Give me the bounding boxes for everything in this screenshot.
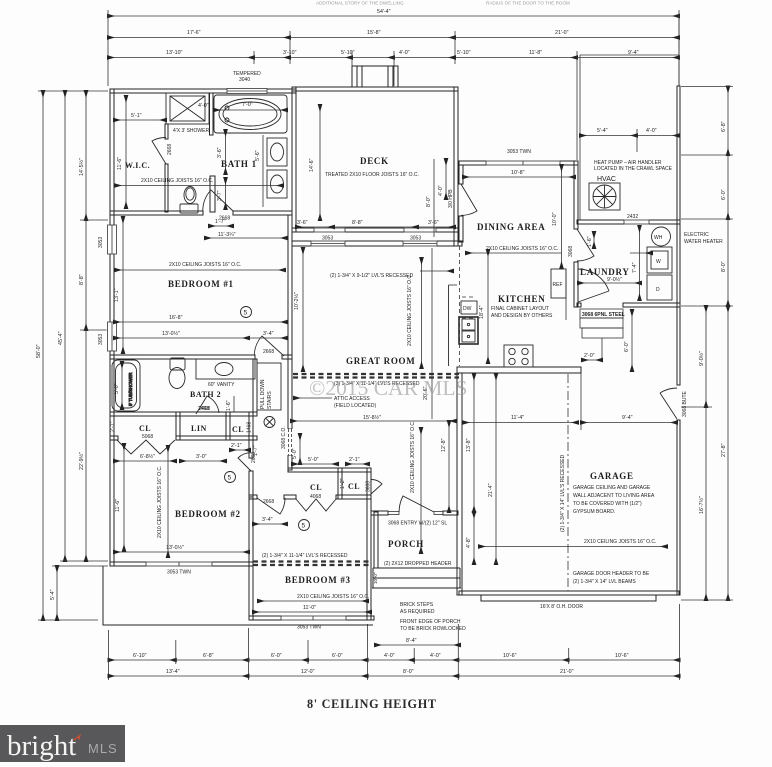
kitchen/dining LVL dashed beam	[459, 246, 461, 366]
svg-text:8'-8": 8'-8"	[79, 274, 85, 285]
lower-left yard outline	[103, 566, 373, 625]
svg-text:(2) 1-3/4" X 9-1/2" LVL'S RECE: (2) 1-3/4" X 9-1/2" LVL'S RECESSED	[330, 273, 413, 279]
dim row 13'-10" / 3'-10" / 5'-10" / 4'-0" / 5'-10" / 11'-8" / 9'-4"	[108, 50, 679, 160]
svg-text:GYPSUM BOARD.: GYPSUM BOARD.	[573, 509, 615, 515]
svg-text:2'-1": 2'-1"	[110, 421, 116, 432]
bedroom3 3'-4 dim	[253, 517, 287, 524]
svg-text:54'-4": 54'-4"	[377, 9, 391, 15]
svg-text:DW: DW	[463, 306, 472, 312]
right dim 27'-8"	[681, 306, 733, 600]
svg-text:GARAGE DOOR HEADER TO BE: GARAGE DOOR HEADER TO BE	[573, 571, 650, 577]
svg-text:2X10 CEILING JOISTS 16" O.C.: 2X10 CEILING JOISTS 16" O.C.	[407, 274, 413, 346]
svg-text:BRICK STEPS: BRICK STEPS	[400, 602, 434, 608]
svg-text:8'-0": 8'-0"	[426, 196, 432, 207]
svg-text:1'-7": 1'-7"	[253, 445, 259, 456]
svg-text:8'-4": 8'-4"	[406, 638, 417, 644]
svg-text:6'-8": 6'-8"	[721, 121, 727, 132]
dryer	[647, 275, 672, 300]
svg-text:6'-0": 6'-0"	[271, 653, 282, 659]
vanity bath2 60"	[196, 359, 255, 379]
WIC dims	[114, 96, 166, 208]
bright MLS logo	[0, 725, 125, 762]
svg-text:10'-8": 10'-8"	[511, 170, 525, 176]
svg-text:10'-6": 10'-6"	[615, 653, 629, 659]
svg-text:GARAGE CEILING AND GARAGE: GARAGE CEILING AND GARAGE	[573, 485, 651, 491]
svg-text:13'-8": 13'-8"	[466, 438, 472, 452]
svg-text:(2) 2X12 DROPPED HEADER: (2) 2X12 DROPPED HEADER	[384, 561, 452, 567]
svg-text:10'-0": 10'-0"	[552, 212, 558, 226]
svg-text:5'-0": 5'-0"	[308, 457, 319, 463]
range/stove	[504, 345, 533, 367]
bifold: CL 4068	[296, 499, 336, 511]
door: dining 3/0 HPB	[448, 184, 477, 215]
washer	[630, 247, 672, 273]
wall: porch left	[374, 512, 378, 568]
svg-text:GREAT ROOM: GREAT ROOM	[346, 356, 415, 366]
garage joists	[479, 539, 667, 547]
svg-text:CL: CL	[348, 482, 360, 491]
svg-text:21'-4": 21'-4"	[488, 483, 494, 497]
svg-text:5'-0": 5'-0"	[292, 448, 298, 459]
wall: main north wall	[292, 241, 462, 246]
wall: foyer east / garage west / porch right	[457, 373, 462, 595]
svg-text:3053 TWN: 3053 TWN	[167, 570, 191, 576]
svg-text:21'-0": 21'-0"	[555, 30, 569, 36]
WIC joists note	[115, 178, 283, 186]
left dim 45'-4"	[58, 91, 108, 561]
svg-text:©2015 CAR MLS: ©2015 CAR MLS	[309, 376, 468, 400]
svg-text:5'-10": 5'-10"	[341, 50, 355, 56]
tub bath2	[112, 360, 140, 411]
svg-text:12'-8": 12'-8"	[441, 438, 447, 452]
svg-text:3040: 3040	[239, 77, 250, 83]
svg-text:18'-4": 18'-4"	[479, 305, 485, 319]
svg-text:15'-8": 15'-8"	[367, 30, 381, 36]
svg-text:2432: 2432	[627, 214, 638, 220]
svg-text:5'-6": 5'-6"	[255, 150, 261, 161]
svg-text:22'-9½": 22'-9½"	[78, 452, 85, 470]
svg-text:3'-10": 3'-10"	[283, 50, 297, 56]
wall: bath2 bottom / closets top	[110, 412, 257, 416]
svg-text:2'-1": 2'-1"	[349, 457, 360, 463]
wall: bath1 toilet-room stub	[210, 176, 215, 212]
svg-text:3068 C.O.: 3068 C.O.	[281, 426, 287, 449]
svg-text:BEDROOM #3: BEDROOM #3	[285, 575, 351, 585]
dim row 17'-6" / 15'-8" / 21'-0"	[108, 30, 679, 64]
wall: kitchen bottom	[457, 367, 581, 373]
svg-text:RADIUS OF THE DOOR TO THE ROOM: RADIUS OF THE DOOR TO THE ROOM	[486, 1, 570, 6]
svg-text:LIN: LIN	[191, 424, 207, 433]
svg-text:2668: 2668	[167, 144, 173, 155]
wall: laundry bottom / garage NE wall	[577, 303, 581, 307]
door: bedroom2 2668	[238, 452, 257, 471]
svg-text:7'-4": 7'-4"	[632, 262, 638, 273]
shower 4x3 with X	[166, 93, 209, 124]
svg-text:3068 6PNL STEEL: 3068 6PNL STEEL	[582, 312, 625, 318]
porch notes	[400, 602, 466, 632]
svg-text:9'-0½": 9'-0½"	[607, 276, 622, 283]
ceiling fixture circle-X hall	[264, 417, 275, 428]
wall: NE niche line	[678, 16, 680, 86]
svg-text:W: W	[656, 259, 661, 265]
svg-text:ADDITIONAL STORY OF THE DWELLI: ADDITIONAL STORY OF THE DWELLING	[316, 1, 404, 6]
svg-text:ELECTRIC: ELECTRIC	[684, 232, 709, 238]
svg-text:3053: 3053	[322, 236, 333, 242]
svg-text:14'-6": 14'-6"	[309, 158, 315, 172]
toilet bath2	[169, 358, 185, 389]
wall: bedroom1/great room west wall	[288, 215, 292, 429]
wall: bottom of Bath1 block / top of Bedroom1	[110, 211, 203, 215]
svg-text:2X10 CEILING JOISTS 16" O.C.: 2X10 CEILING JOISTS 16" O.C.	[486, 246, 558, 252]
svg-text:58'-0": 58'-0"	[36, 344, 42, 358]
wall: deck right	[454, 87, 458, 246]
front porch edge lines	[373, 567, 460, 569]
electric water heater note	[684, 232, 723, 245]
svg-text:CL: CL	[139, 424, 151, 433]
right dim 9'-0" / 16'-7"	[681, 306, 712, 600]
wall: hall west / bedroom2 right / bedroom3 left	[249, 412, 253, 458]
svg-text:12'-0": 12'-0"	[301, 669, 315, 675]
svg-text:8'-0": 8'-0"	[721, 261, 727, 272]
window: north wall 3053 x2	[311, 236, 437, 247]
svg-text:3053 TWN: 3053 TWN	[507, 149, 531, 155]
svg-text:3053: 3053	[98, 334, 104, 345]
svg-text:1'-7": 1'-7"	[215, 219, 226, 225]
left bottom dim 5'-4"	[50, 566, 108, 620]
svg-text:BATH 1: BATH 1	[221, 159, 257, 169]
svg-text:GARAGE: GARAGE	[590, 471, 634, 481]
svg-text:3'-6": 3'-6"	[297, 220, 308, 226]
svg-text:4068: 4068	[310, 494, 321, 500]
svg-text:27'-8": 27'-8"	[721, 443, 727, 457]
garage 9'-4" dim extension	[580, 373, 582, 430]
dishwasher	[461, 297, 477, 318]
pull down stairs	[257, 363, 281, 410]
circled 5 markers	[225, 307, 310, 531]
svg-text:BEDROOM #2: BEDROOM #2	[175, 509, 241, 519]
svg-text:2468: 2468	[198, 406, 209, 412]
kitchen 11'-4 dim	[479, 250, 488, 363]
svg-text:DECK: DECK	[360, 156, 389, 166]
svg-text:5'-4": 5'-4"	[50, 589, 56, 600]
svg-text:9'-0½": 9'-0½"	[698, 351, 705, 366]
svg-text:AND DESIGN BY OTHERS: AND DESIGN BY OTHERS	[491, 313, 553, 319]
window: porch sidelites	[388, 512, 443, 515]
svg-text:13'-10": 13'-10"	[166, 50, 183, 56]
svg-text:11'-6": 11'-6"	[115, 499, 121, 512]
svg-text:2X10 CEILING JOISTS 16" O.C.: 2X10 CEILING JOISTS 16" O.C.	[410, 421, 416, 493]
svg-text:5'-0": 5'-0"	[114, 383, 120, 394]
door: closet 3668 small	[371, 479, 382, 494]
svg-text:13'-4": 13'-4"	[166, 669, 180, 675]
door: rear hall 3068	[568, 229, 594, 261]
svg-text:STAIRS: STAIRS	[267, 391, 273, 409]
dim 5'-4" / 4'-0" over heat pump niche	[580, 128, 679, 152]
kitchen bar counter	[448, 285, 450, 366]
svg-text:(FIELD LOCATED): (FIELD LOCATED)	[334, 403, 376, 409]
svg-text:3'-7": 3'-7"	[217, 190, 223, 201]
bedroom3 closet dims	[292, 457, 369, 489]
cased opening 3068 C.O. hall	[281, 426, 293, 455]
svg-text:6'-0": 6'-0"	[721, 189, 727, 200]
svg-text:5: 5	[302, 523, 306, 530]
door: garage utility 3068	[660, 388, 688, 419]
water heater WH	[652, 227, 671, 246]
svg-text:11'-6": 11'-6"	[117, 157, 123, 170]
svg-text:BEDROOM #1: BEDROOM #1	[168, 279, 234, 289]
svg-text:60" VANITY: 60" VANITY	[208, 382, 235, 388]
window: bedroom3 3053 TWN	[281, 615, 346, 630]
deck vertical dim 14'-6"	[309, 105, 320, 220]
svg-text:15'-8½": 15'-8½"	[363, 414, 381, 421]
garage LVL dash-dot beam	[560, 374, 568, 591]
svg-text:FRONT EDGE OF PORCH: FRONT EDGE OF PORCH	[400, 619, 461, 625]
svg-text:WH: WH	[654, 235, 663, 241]
shower / tub dims	[173, 102, 287, 134]
dining door dims 4'-0 / 8'-0	[426, 159, 446, 237]
dining joists note	[466, 246, 561, 253]
svg-text:FINAL CABINET LAYOUT: FINAL CABINET LAYOUT	[491, 306, 549, 312]
wall: bedroom2 bottom	[110, 562, 253, 566]
window: tempered 3040 (bath1 top)	[227, 71, 267, 94]
svg-text:1'-6": 1'-6"	[226, 400, 232, 411]
svg-text:bright: bright	[7, 730, 76, 762]
svg-text:2668: 2668	[263, 499, 274, 505]
great room dims	[291, 248, 456, 421]
bath1 dims	[217, 130, 263, 209]
wall: LIN dividers	[176, 412, 180, 440]
svg-text:(2) 1-3/4" X 11-1/4" LVL'S REC: (2) 1-3/4" X 11-1/4" LVL'S RECESSED	[262, 553, 348, 559]
svg-text:3068 BUTE: 3068 BUTE	[682, 390, 688, 417]
wall: bedroom3 bottom	[249, 616, 374, 620]
wall: bath1 shower-side stub	[210, 93, 214, 135]
svg-text:4'-8": 4'-8"	[466, 537, 472, 548]
svg-text:9'-4": 9'-4"	[622, 415, 633, 421]
wall: bedroom3 closets bottom	[249, 495, 257, 499]
wall: left exterior	[110, 89, 114, 566]
svg-text:TREATED 2X10 FLOOR JOISTS 16": TREATED 2X10 FLOOR JOISTS 16" O.C.	[325, 172, 419, 178]
bedroom2 joists	[157, 446, 168, 557]
HVAC unit	[589, 183, 620, 210]
wall: laundry top	[577, 220, 680, 224]
attic access note	[294, 396, 376, 409]
closet row dims	[114, 443, 259, 461]
faint cutoff notes at very top	[316, 1, 570, 6]
svg-text:WALL ADJACENT TO LIVING AREA: WALL ADJACENT TO LIVING AREA	[573, 493, 655, 499]
svg-text:3/0 HPB: 3/0 HPB	[448, 189, 454, 208]
bedroom3 LVL dashed beam	[253, 562, 371, 566]
svg-text:5: 5	[244, 310, 248, 317]
room label KITCHEN	[491, 294, 553, 319]
great room joists vertical	[407, 258, 422, 368]
svg-text:W.I.C.: W.I.C.	[125, 161, 150, 170]
room labels CL / CL bedroom3	[310, 481, 372, 500]
svg-text:(2) 1-3/4" X 14" LVL'S RECESSE: (2) 1-3/4" X 14" LVL'S RECESSED	[560, 454, 566, 532]
svg-text:3'-6": 3'-6"	[217, 147, 223, 158]
svg-text:DINING AREA: DINING AREA	[477, 222, 545, 232]
door: garage steel 3068 label box + steps	[580, 309, 625, 359]
garage header note	[573, 571, 650, 585]
svg-text:LOCATED IN THE CRAWL SPACE: LOCATED IN THE CRAWL SPACE	[594, 166, 673, 172]
room label GARAGE	[573, 471, 655, 515]
svg-text:5'-1": 5'-1"	[131, 113, 142, 119]
garage dims	[463, 310, 677, 423]
svg-text:3668: 3668	[366, 481, 372, 492]
svg-text:8' CEILING HEIGHT: 8' CEILING HEIGHT	[307, 697, 437, 711]
svg-text:7'-0": 7'-0"	[242, 102, 253, 108]
svg-text:11'-3¼": 11'-3¼"	[218, 232, 236, 238]
dims below bath1	[205, 219, 287, 238]
svg-text:BATH 2: BATH 2	[190, 390, 221, 399]
foyer dims 12'-8 / 13'-8 / 4'-8 / 21'-4	[441, 374, 496, 564]
svg-text:CL: CL	[232, 425, 244, 434]
overall width dim 54'-4"	[108, 9, 679, 86]
bedroom2 dims	[114, 444, 249, 552]
svg-text:KITCHEN: KITCHEN	[498, 294, 545, 304]
svg-text:17'-6": 17'-6"	[187, 30, 201, 36]
right dim 6'-8" / 6'-0" / 8'-0"	[681, 87, 733, 307]
svg-text:2X10 CEILING JOISTS 16" O.C.: 2X10 CEILING JOISTS 16" O.C.	[297, 594, 369, 600]
svg-text:4'-0": 4'-0"	[198, 103, 209, 109]
svg-text:16'-8": 16'-8"	[169, 315, 183, 321]
svg-text:45'-4": 45'-4"	[58, 331, 64, 345]
door: front entry 3068	[388, 496, 447, 527]
svg-text:1468: 1468	[247, 422, 253, 433]
svg-text:CL: CL	[310, 483, 322, 492]
svg-text:1'-6": 1'-6"	[587, 236, 593, 247]
svg-text:13'-1": 13'-1"	[114, 288, 120, 302]
left overall dim 58'-0"	[36, 91, 108, 620]
laundry dims	[578, 226, 641, 300]
door: WIC 2668	[152, 137, 173, 164]
wall: closet divider CL/CL	[338, 468, 342, 499]
door: bedroom1 2668	[254, 336, 284, 356]
wall: garage bottom	[459, 591, 679, 595]
vanity sinks bath1 (right wall)	[267, 138, 287, 198]
svg-text:2X10 CEILING JOISTS 16" O.C.: 2X10 CEILING JOISTS 16" O.C.	[157, 466, 163, 538]
svg-text:HVAC: HVAC	[597, 176, 616, 183]
svg-text:4'-0": 4'-0"	[430, 653, 441, 659]
svg-text:11'-8": 11'-8"	[529, 50, 542, 56]
svg-text:D: D	[656, 287, 660, 293]
svg-text:TO BE COVERED WITH (1/2"): TO BE COVERED WITH (1/2")	[573, 501, 642, 507]
svg-text:5'-10": 5'-10"	[457, 50, 471, 56]
door: bedroom3 2668	[257, 498, 285, 514]
svg-text:16'X 8' O.H. DOOR: 16'X 8' O.H. DOOR	[540, 604, 583, 610]
foyer joists vertical	[410, 421, 421, 553]
toilet bath1	[180, 187, 198, 214]
wall: deck top	[292, 87, 458, 91]
svg-text:3'-4": 3'-4"	[263, 331, 274, 337]
porch width dim 8'-4"	[375, 638, 460, 645]
svg-text:MLS: MLS	[88, 741, 118, 756]
svg-text:4'-0": 4'-0"	[399, 50, 410, 56]
svg-text:4'-0": 4'-0"	[646, 128, 657, 134]
svg-text:13'-0½": 13'-0½"	[166, 544, 184, 551]
svg-text:3068 ENTRY W/(2) 12" SL: 3068 ENTRY W/(2) 12" SL	[388, 521, 447, 527]
bedroom1 dims	[114, 217, 287, 353]
bottom dim row B: 13'-4 / 12'-0 / 8'-0 / 21'-0	[109, 669, 680, 676]
svg-text:2'-0": 2'-0"	[584, 353, 595, 359]
svg-text:3053 TWN: 3053 TWN	[297, 625, 321, 631]
svg-text:5068: 5068	[142, 434, 153, 440]
wall: deck bottom	[292, 228, 458, 232]
svg-text:14'-5½": 14'-5½"	[78, 158, 85, 176]
svg-text:6'-8½": 6'-8½"	[140, 453, 155, 460]
door: bath2 2468	[196, 396, 219, 414]
svg-text:(2) 1-3/4" X 14" LVL BEAMS: (2) 1-3/4" X 14" LVL BEAMS	[573, 579, 636, 585]
refrigerator	[551, 269, 566, 320]
bottom dim row A: 6'-10 / 6'-8 / 6'-0 / 6'-0 / 4'-0 / 4'-0 / 10'-6 / 10'-6	[109, 604, 680, 680]
svg-text:AS REQUIRED: AS REQUIRED	[400, 609, 435, 615]
deck bottom dims 3'-6 / 8'-8 / 3'-6	[296, 220, 455, 227]
wall: WIC east partition	[165, 124, 168, 139]
svg-text:6'-0": 6'-0"	[624, 341, 630, 352]
heat pump note	[594, 160, 673, 183]
window: deck bottom wall pair	[314, 227, 436, 232]
svg-text:3'-4": 3'-4"	[262, 517, 273, 523]
svg-text:REF: REF	[553, 282, 563, 288]
svg-text:2X10 CEILING JOISTS 16" O.C.: 2X10 CEILING JOISTS 16" O.C.	[169, 262, 241, 268]
svg-text:4'-0": 4'-0"	[438, 185, 444, 196]
svg-text:11'-4": 11'-4"	[511, 415, 524, 421]
svg-text:21'-0": 21'-0"	[560, 669, 574, 675]
svg-text:TO BE BRICK ROWLOCKED: TO BE BRICK ROWLOCKED	[400, 626, 466, 632]
svg-text:PORCH: PORCH	[388, 539, 424, 549]
garden tub bath1	[214, 95, 287, 133]
svg-text:1'-2": 1'-2"	[340, 478, 346, 489]
svg-text:5' TUB/SHOWER: 5' TUB/SHOWER	[128, 373, 133, 406]
svg-text:LAUNDRY: LAUNDRY	[580, 267, 630, 277]
window: bedroom2 3053 TWN	[146, 561, 212, 575]
kitchen sink double	[459, 317, 478, 344]
wall: porch top (front entry wall)	[371, 511, 388, 515]
window: dining 3053 TWN	[486, 149, 560, 166]
svg-text:2'-1": 2'-1"	[231, 443, 242, 449]
svg-text:4'X 3' SHOWER: 4'X 3' SHOWER	[173, 128, 209, 134]
dining dims	[463, 165, 575, 268]
svg-text:8'-8": 8'-8"	[352, 220, 363, 226]
door: bath1 2668	[203, 190, 233, 222]
svg-text:10'-0": 10'-0"	[373, 572, 378, 584]
svg-text:11'-0": 11'-0"	[303, 605, 316, 611]
svg-text:16'-7½": 16'-7½"	[698, 496, 705, 514]
wall: bedroom3 closets top	[288, 468, 371, 472]
bifold: CL 5068	[117, 440, 175, 454]
svg-text:2X10 CEILING JOISTS 16" O.C.: 2X10 CEILING JOISTS 16" O.C.	[584, 539, 656, 545]
svg-text:3053: 3053	[98, 237, 104, 248]
svg-text:6'-0": 6'-0"	[332, 653, 343, 659]
wall: closet row bottom	[110, 436, 118, 440]
window: left wall 3053 upper	[98, 225, 118, 254]
deck stairs	[352, 66, 398, 87]
wall: east exterior	[677, 86, 680, 385]
svg-text:WATER HEATER: WATER HEATER	[684, 239, 723, 245]
svg-text:3'-0": 3'-0"	[196, 454, 207, 460]
garage door recess	[481, 595, 656, 601]
wall: deck left	[292, 87, 296, 232]
great room LVL dashed beam	[293, 374, 459, 378]
svg-text:6'-8": 6'-8"	[203, 653, 214, 659]
door: laundry	[578, 269, 609, 302]
wall: bedroom3 right	[367, 468, 371, 620]
svg-text:10'-2½": 10'-2½"	[293, 292, 300, 310]
svg-text:5'-4": 5'-4"	[597, 128, 608, 134]
window: laundry 2432	[624, 214, 649, 225]
wall: bath2 right	[253, 359, 257, 412]
bedroom3 joists + dim	[253, 594, 371, 612]
bedroom1 joists	[115, 262, 285, 270]
